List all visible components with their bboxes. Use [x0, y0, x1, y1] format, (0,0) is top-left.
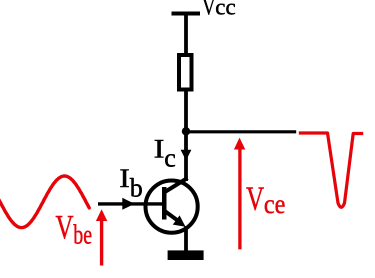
svg-text:V: V — [246, 180, 265, 218]
svg-text:I: I — [119, 165, 130, 194]
svg-text:V: V — [202, 0, 215, 20]
ground symbol — [168, 250, 204, 260]
svg-text:V: V — [55, 209, 74, 247]
emitter diagonal — [164, 211, 178, 221]
label Vbe — [55, 209, 92, 251]
input sine wave — [0, 176, 89, 228]
svg-text:cc: cc — [215, 0, 235, 19]
current arrow Ic (down) — [181, 150, 192, 161]
wire resistor to collector node — [184, 91, 188, 133]
svg-text:c: c — [164, 144, 176, 173]
transistor Q1 body circle — [146, 181, 198, 233]
node collector junction — [182, 127, 190, 135]
emitter wire — [184, 226, 188, 252]
label Ib — [119, 165, 143, 203]
transistor base bar — [162, 187, 167, 220]
wire collector node down to transistor — [184, 131, 188, 181]
collector diagonal — [164, 178, 188, 193]
label Vce — [246, 180, 285, 219]
wire Vcc to resistor — [184, 14, 188, 57]
svg-text:b: b — [130, 173, 143, 202]
Vbe arrow (up) — [96, 209, 107, 265]
svg-text:be: be — [73, 221, 92, 251]
base wire — [98, 202, 163, 205]
base current arrowhead Ib — [122, 198, 134, 210]
Vcc power rail bar — [172, 12, 201, 16]
emitter arrowhead — [173, 215, 186, 226]
svg-text:ce: ce — [264, 189, 286, 219]
Vce arrow (up) — [234, 138, 245, 250]
resistor R1 — [179, 55, 192, 90]
output waveform — [299, 133, 363, 207]
label Ic — [154, 135, 176, 172]
wire collector node to output — [186, 130, 296, 133]
svg-text:I: I — [154, 135, 165, 163]
label Vcc — [202, 0, 235, 20]
